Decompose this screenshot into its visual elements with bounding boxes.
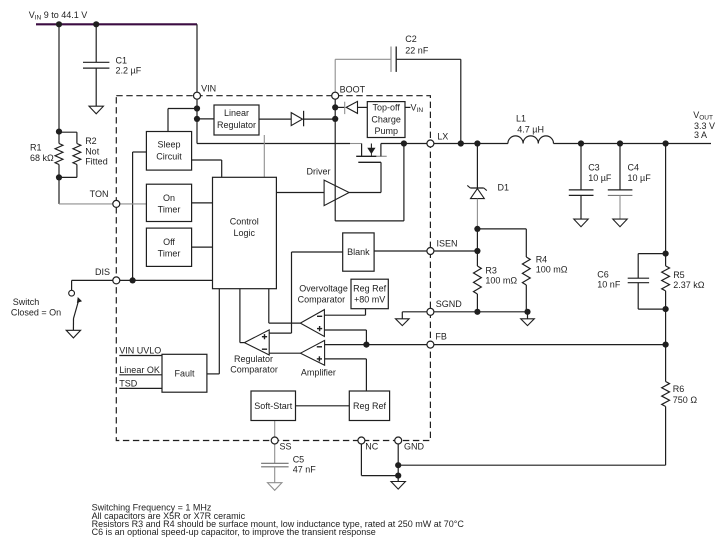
svg-text:VIN: VIN xyxy=(201,84,216,94)
svg-text:C2: C2 xyxy=(405,34,417,44)
svg-text:750 Ω: 750 Ω xyxy=(673,395,698,405)
svg-text:Reg Ref: Reg Ref xyxy=(353,283,387,293)
svg-text:Comparator: Comparator xyxy=(230,364,278,374)
svg-text:100 mΩ: 100 mΩ xyxy=(485,276,517,286)
svg-text:Linear: Linear xyxy=(224,108,249,118)
svg-text:C5: C5 xyxy=(293,455,305,465)
svg-text:L1: L1 xyxy=(516,114,526,124)
svg-text:10 µF: 10 µF xyxy=(588,173,612,183)
svg-text:10 nF: 10 nF xyxy=(597,280,621,290)
svg-text:C3: C3 xyxy=(588,162,600,172)
svg-text:TON: TON xyxy=(90,189,109,199)
svg-text:Comparator: Comparator xyxy=(298,294,346,304)
svg-text:R6: R6 xyxy=(673,384,685,394)
svg-text:Driver: Driver xyxy=(307,167,331,177)
svg-text:TSD: TSD xyxy=(119,378,138,388)
svg-text:FB: FB xyxy=(435,332,447,342)
svg-text:Charge: Charge xyxy=(371,114,401,124)
svg-text:Overvoltage: Overvoltage xyxy=(299,284,348,294)
svg-text:2.2 µF: 2.2 µF xyxy=(116,66,142,76)
svg-text:SS: SS xyxy=(280,442,292,452)
svg-text:Timer: Timer xyxy=(158,248,181,258)
svg-text:LX: LX xyxy=(437,131,448,141)
svg-text:Blank: Blank xyxy=(347,247,370,257)
svg-text:C4: C4 xyxy=(628,162,640,172)
svg-text:Pump: Pump xyxy=(374,126,398,136)
svg-text:100 mΩ: 100 mΩ xyxy=(536,264,568,274)
svg-text:Amplifier: Amplifier xyxy=(301,367,336,377)
svg-text:GND: GND xyxy=(404,442,425,452)
svg-text:22 nF: 22 nF xyxy=(405,45,429,55)
svg-text:BOOT: BOOT xyxy=(340,84,366,94)
svg-text:R3: R3 xyxy=(485,266,497,276)
svg-text:Sleep: Sleep xyxy=(157,140,180,150)
svg-text:3 A: 3 A xyxy=(694,130,707,140)
svg-text:Switch: Switch xyxy=(13,297,40,307)
svg-text:+80 mV: +80 mV xyxy=(354,295,385,305)
svg-text:C1: C1 xyxy=(116,56,128,66)
svg-text:Off: Off xyxy=(163,237,175,247)
svg-text:D1: D1 xyxy=(498,182,510,192)
svg-text:R5: R5 xyxy=(673,270,685,280)
svg-text:Fitted: Fitted xyxy=(85,157,108,167)
svg-text:2.37 kΩ: 2.37 kΩ xyxy=(673,280,705,290)
svg-text:SGND: SGND xyxy=(436,299,463,309)
svg-text:Logic: Logic xyxy=(234,228,256,238)
svg-text:Closed = On: Closed = On xyxy=(11,307,61,317)
svg-text:VIN UVLO: VIN UVLO xyxy=(119,346,161,356)
svg-text:Top-off: Top-off xyxy=(373,103,401,113)
svg-text:On: On xyxy=(163,193,175,203)
svg-text:NC: NC xyxy=(365,442,378,452)
svg-text:Regulator: Regulator xyxy=(217,120,256,130)
svg-text:C6 is an optional speed-up cap: C6 is an optional speed-up capacitor, to… xyxy=(92,527,376,537)
svg-text:47 nF: 47 nF xyxy=(293,465,317,475)
svg-text:R4: R4 xyxy=(536,254,548,264)
svg-text:Linear OK: Linear OK xyxy=(119,365,160,375)
svg-text:Fault: Fault xyxy=(174,369,195,379)
svg-text:Regulator: Regulator xyxy=(234,354,273,364)
svg-text:4.7 µH: 4.7 µH xyxy=(517,125,544,135)
svg-text:Circuit: Circuit xyxy=(156,151,182,161)
svg-text:Reg Ref: Reg Ref xyxy=(353,401,387,411)
svg-text:Control: Control xyxy=(230,217,259,227)
svg-text:R1: R1 xyxy=(30,143,42,153)
svg-text:Soft-Start: Soft-Start xyxy=(254,401,293,411)
svg-text:DIS: DIS xyxy=(95,267,110,277)
svg-text:R2: R2 xyxy=(85,136,97,146)
svg-text:Timer: Timer xyxy=(158,205,181,215)
svg-text:Not: Not xyxy=(85,147,100,157)
svg-text:C6: C6 xyxy=(597,270,609,280)
svg-text:ISEN: ISEN xyxy=(437,239,458,249)
svg-text:10 µF: 10 µF xyxy=(628,173,652,183)
svg-text:68 kΩ: 68 kΩ xyxy=(30,153,54,163)
